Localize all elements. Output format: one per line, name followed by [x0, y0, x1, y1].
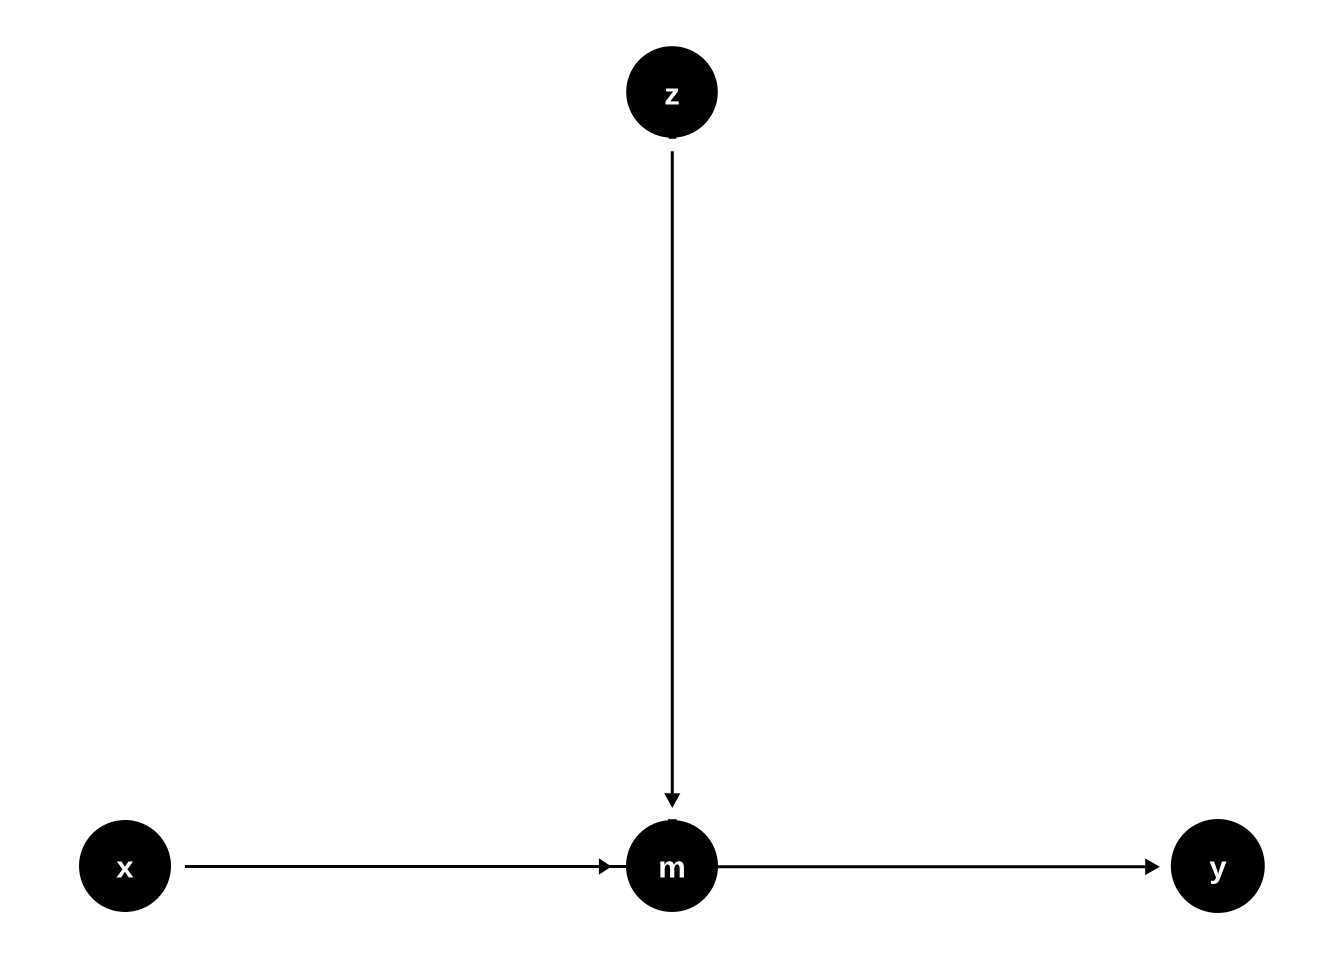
- arrowhead into m (from z): [664, 793, 680, 808]
- node m: [626, 820, 718, 912]
- wire x to m: [185, 865, 627, 868]
- node z: [626, 46, 718, 138]
- wire stub at top of m: [668, 819, 677, 822]
- arrowhead into m (from x): [599, 858, 612, 875]
- node x: [79, 820, 171, 912]
- wire z to m: [671, 151, 674, 793]
- wire m to y: [718, 865, 1145, 868]
- svg-text:m: m: [658, 850, 686, 885]
- arrowhead into y (from m): [1145, 859, 1160, 876]
- wire stub at bottom of z: [669, 136, 677, 139]
- svg-text:z: z: [664, 77, 680, 112]
- svg-text:x: x: [116, 850, 134, 885]
- node y: [1171, 819, 1265, 913]
- svg-text:y: y: [1209, 850, 1227, 885]
